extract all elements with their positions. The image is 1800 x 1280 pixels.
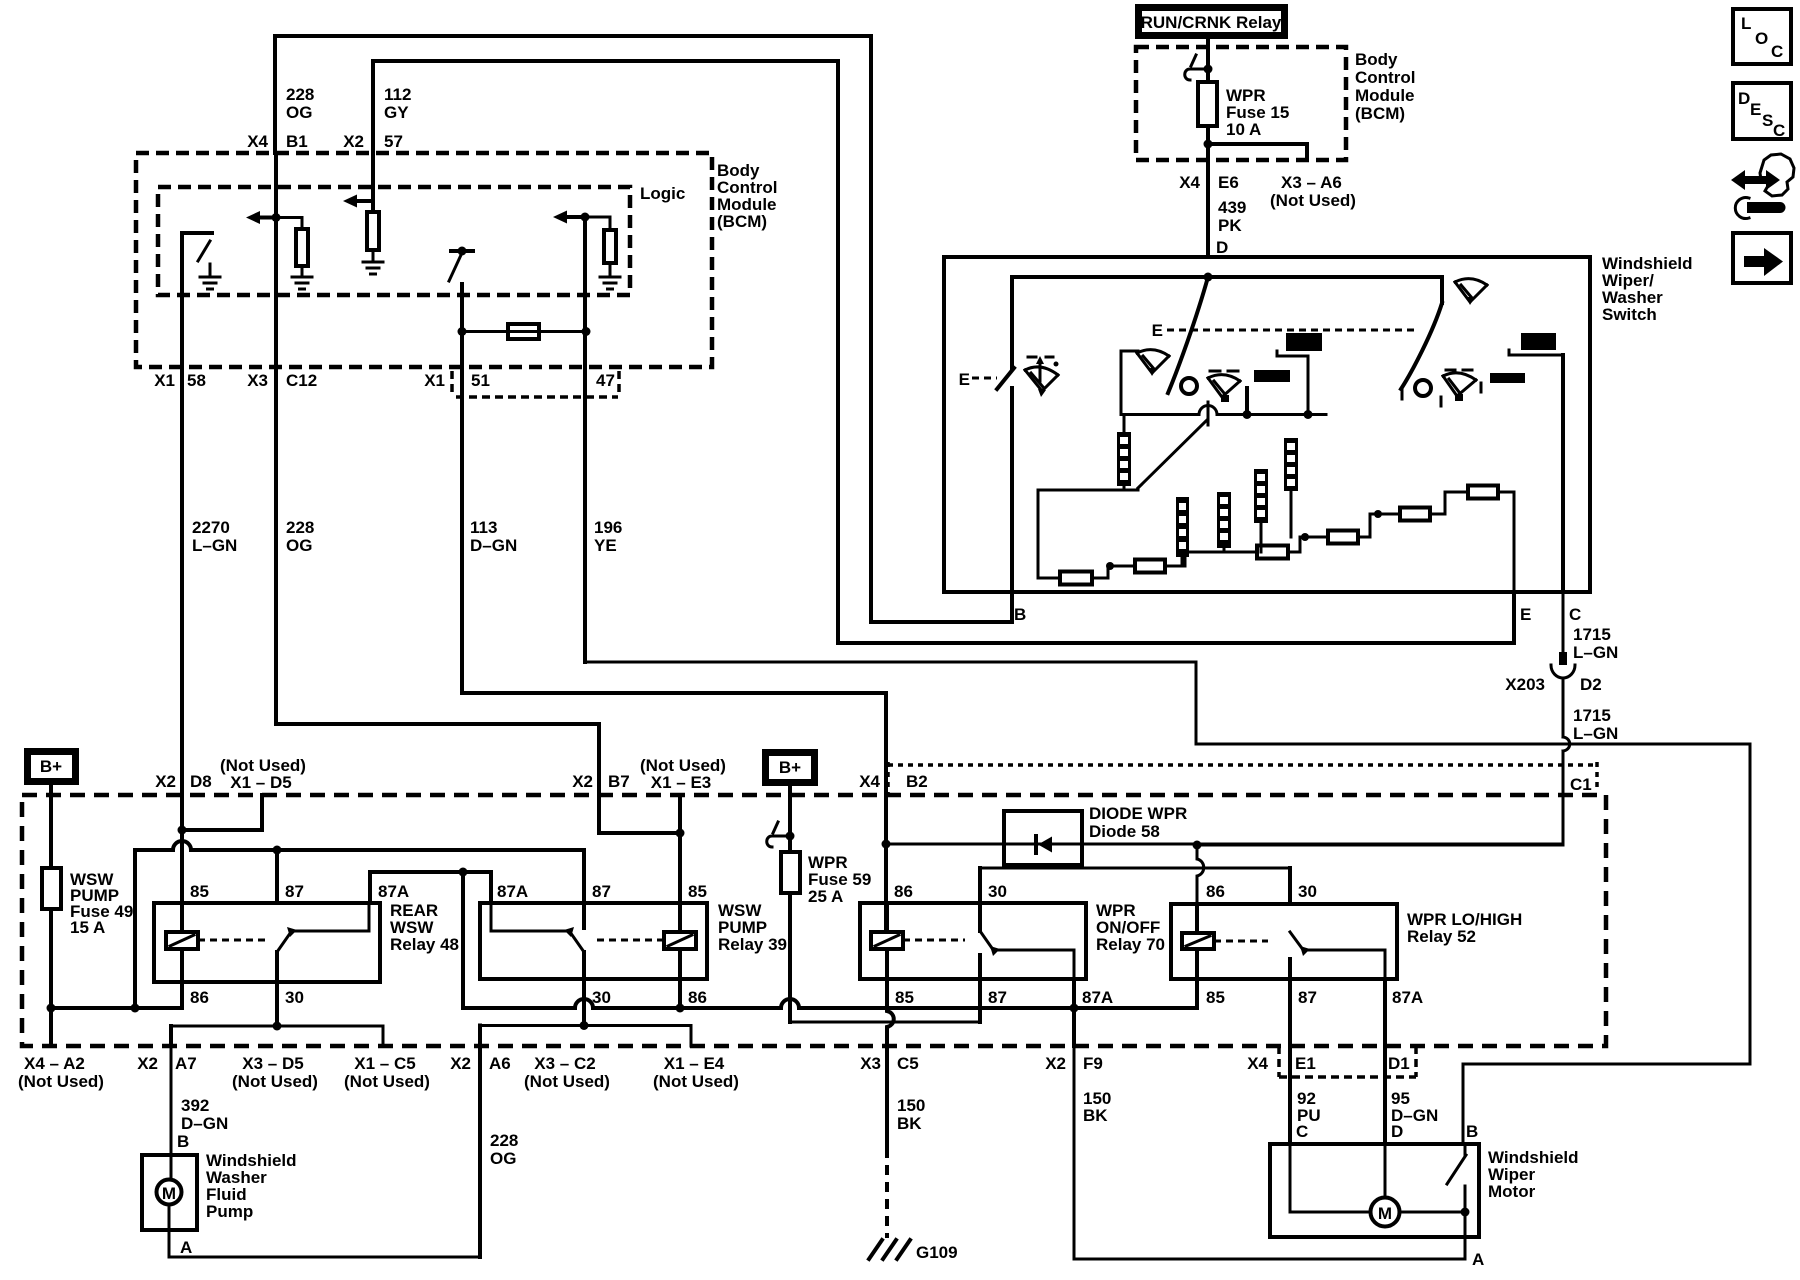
wire 87A/F9 down — [1072, 979, 1076, 1046]
svg-text:Relay 48: Relay 48 — [390, 935, 459, 954]
svg-text:B: B — [1466, 1122, 1478, 1141]
wire motor A return (F9 to motor A) — [1074, 1046, 1465, 1259]
right wiper switch blade — [1440, 277, 1444, 303]
wire 392 line (relay48 30 to pump) — [171, 1025, 383, 1028]
svg-text:X2: X2 — [572, 772, 593, 791]
washer spray icon — [1025, 357, 1058, 391]
wire fuse 59 to relay70 87 — [788, 893, 792, 1022]
diode WPR Diode 58 — [1004, 811, 1082, 865]
svg-text:X4: X4 — [1247, 1054, 1268, 1073]
svg-text:X1 – E4: X1 – E4 — [664, 1054, 725, 1073]
node 87A rail — [459, 868, 468, 877]
ladder junction nodes — [1106, 562, 1114, 570]
svg-text:150: 150 — [897, 1096, 925, 1115]
svg-text:L–GN: L–GN — [1573, 724, 1618, 743]
park switch stub B — [1464, 1144, 1467, 1155]
svg-text:2270: 2270 — [192, 518, 230, 537]
windshield wiper motor box — [1270, 1144, 1479, 1237]
svg-text:BK: BK — [897, 1114, 922, 1133]
relay48 pin 30 — [275, 952, 279, 1026]
svg-text:Relay 39: Relay 39 — [718, 935, 787, 954]
wire high bar to pin C — [1509, 350, 1563, 355]
ladder resistor R5 — [1400, 508, 1430, 521]
svg-text:C: C — [1296, 1122, 1308, 1141]
relay52 coil link (dashed) — [1214, 940, 1268, 943]
wire washer switch pole (B pin into box) — [1010, 388, 1014, 592]
wire 228 line (relay39 30 to A6) — [480, 1024, 691, 1027]
svg-text:X3 – C2: X3 – C2 — [534, 1054, 595, 1073]
svg-text:(Not Used): (Not Used) — [524, 1072, 610, 1091]
svg-text:85: 85 — [1206, 988, 1225, 1007]
ground rail right segment with hops at 584 and fuse59 — [463, 979, 1197, 1008]
svg-text:196: 196 — [594, 518, 622, 537]
svg-text:85: 85 — [190, 882, 209, 901]
resistor in logic (57) — [367, 212, 379, 250]
BCM box top right (dashed) — [1136, 47, 1346, 160]
svg-text:25 A: 25 A — [808, 887, 843, 906]
svg-text:86: 86 — [190, 988, 209, 1007]
ladder resistor R3 — [1257, 546, 1288, 559]
wire pump A to 228 OG — [169, 1206, 480, 1257]
svg-text:47: 47 — [596, 371, 615, 390]
svg-text:X3: X3 — [860, 1054, 881, 1073]
svg-text:E: E — [959, 370, 970, 389]
ladder resistor R4 — [1328, 531, 1358, 544]
wire 57 into logic — [371, 153, 375, 212]
relay70 pin 85 with jog — [887, 949, 894, 1148]
ladder resistor R6 — [1468, 486, 1498, 499]
svg-text:112: 112 — [384, 85, 411, 104]
wire high bar to ladder — [1277, 351, 1308, 415]
relay52 86 feed with hop — [1197, 845, 1204, 904]
wire to washer switch contact — [1010, 277, 1014, 368]
wiper motor M — [1371, 1198, 1400, 1227]
wire 228 OG B1 loop (BCM B1 to switch B) — [275, 36, 1012, 622]
svg-text:87: 87 — [592, 882, 611, 901]
relay48 blade — [277, 932, 291, 952]
wire 112 GY 57 loop (BCM 57 to switch E) — [373, 61, 1514, 643]
node on 47 wire — [581, 213, 590, 222]
resistor in logic (47) — [585, 217, 610, 230]
wire fuse 49 down — [49, 909, 53, 1046]
svg-text:228: 228 — [286, 85, 314, 104]
svg-text:Body: Body — [1355, 50, 1398, 69]
svg-text:30: 30 — [285, 988, 304, 1007]
switch to ground in BCM logic — [182, 231, 212, 235]
arrow out (47) — [565, 215, 585, 219]
ladder resistor R2 — [1135, 560, 1165, 573]
relay WPR LO/HIGH Relay 52 — [1171, 904, 1397, 979]
svg-text:L–GN: L–GN — [1573, 643, 1618, 662]
diagonal wiper feed — [1138, 420, 1207, 488]
svg-text:51: 51 — [471, 371, 490, 390]
wiper icon dashed (delay) — [1208, 371, 1240, 397]
wire 196 YE pin 47 (BCM to wiper motor A) — [583, 217, 587, 662]
fuse WPR Fuse 59 25 A — [781, 852, 800, 893]
connector X203 — [1559, 652, 1567, 665]
svg-text:1715: 1715 — [1573, 625, 1611, 644]
svg-text:A6: A6 — [489, 1054, 511, 1073]
svg-text:F9: F9 — [1083, 1054, 1103, 1073]
wire wiper icon to ladder — [1121, 351, 1138, 415]
resistor between 51 and 47 — [462, 330, 586, 333]
svg-text:D8: D8 — [190, 772, 212, 791]
svg-text:Module: Module — [1355, 86, 1415, 105]
motor A out — [1464, 1212, 1467, 1259]
S4 tap — [1181, 557, 1184, 566]
wire 150 BK dashed to G109 — [885, 1148, 889, 1238]
svg-text:Pump: Pump — [206, 1202, 253, 1221]
svg-text:OG: OG — [490, 1149, 516, 1168]
svg-text:15 A: 15 A — [70, 918, 105, 937]
relay70 NC 87A path — [996, 950, 1074, 979]
node D inside switch — [1204, 273, 1213, 282]
svg-text:D: D — [1391, 1122, 1403, 1141]
svg-text:87A: 87A — [497, 882, 528, 901]
wire 87A down to rail — [461, 872, 465, 1008]
svg-text:S: S — [1762, 111, 1773, 130]
striped resistor S3 — [1254, 469, 1268, 523]
svg-text:C5: C5 — [897, 1054, 919, 1073]
relay52 blade — [1290, 932, 1304, 951]
svg-text:C: C — [1773, 121, 1785, 140]
icon box LOC — [1733, 9, 1791, 64]
svg-text:B7: B7 — [608, 772, 630, 791]
fine dotted boundary to C1 — [888, 762, 1597, 795]
motor M to park switch — [1400, 1211, 1465, 1214]
connector X4 E1 D1 (dashed) — [1279, 1046, 1416, 1077]
relay WPR ON/OFF Relay 70 — [860, 903, 1086, 979]
wire 113 D-GN run to B2 — [462, 693, 886, 932]
svg-text:C: C — [1771, 42, 1783, 61]
svg-text:X2: X2 — [1045, 1054, 1066, 1073]
svg-text:X4: X4 — [1179, 173, 1200, 192]
svg-text:Relay 52: Relay 52 — [1407, 927, 1476, 946]
motor C to M — [1290, 1144, 1370, 1212]
fuse pull hook (fuse 59) — [767, 822, 790, 847]
svg-text:D–GN: D–GN — [181, 1114, 228, 1133]
relay52 NC 87A path — [1306, 950, 1385, 979]
contact bar low (right) — [1490, 373, 1525, 383]
svg-text:GY: GY — [384, 103, 409, 122]
svg-text:85: 85 — [688, 882, 707, 901]
svg-text:86: 86 — [1206, 882, 1225, 901]
stub X3-A6 (not used) — [1208, 144, 1307, 160]
svg-text:X1 – C5: X1 – C5 — [354, 1054, 415, 1073]
svg-text:86: 86 — [688, 988, 707, 1007]
svg-text:RUN/CRNK Relay: RUN/CRNK Relay — [1141, 13, 1282, 32]
ladder top line with hop — [1121, 406, 1326, 415]
main wiper switch blade — [1168, 277, 1208, 393]
svg-text:D: D — [1738, 89, 1750, 108]
svg-text:B2: B2 — [906, 772, 928, 791]
wire B+ to fuse 59 — [788, 785, 792, 852]
arrow out (C12) — [258, 216, 276, 220]
relay70 pin 30 riser — [978, 868, 982, 931]
wire feed rail inside switch — [1012, 275, 1442, 279]
svg-text:87A: 87A — [378, 882, 409, 901]
svg-text:X2: X2 — [450, 1054, 471, 1073]
wire 1715 L-GN switch C to X203 — [1562, 592, 1565, 654]
wire 228 OG run to B7 — [276, 724, 680, 833]
svg-text:57: 57 — [384, 132, 403, 151]
svg-text:87A: 87A — [1082, 988, 1113, 1007]
underhood fuse block box (dashed) — [22, 795, 1606, 1046]
svg-text:86: 86 — [894, 882, 913, 901]
svg-text:(Not Used): (Not Used) — [653, 1072, 739, 1091]
wire pin C inside box — [1561, 355, 1565, 592]
svg-text:M: M — [1378, 1204, 1392, 1223]
node diode to relay52 — [1193, 841, 1202, 850]
svg-text:30: 30 — [592, 988, 611, 1007]
relay39 coil — [664, 932, 696, 949]
logic box (dashed) — [158, 187, 630, 295]
svg-text:X2: X2 — [137, 1054, 158, 1073]
stem through ladder hop — [1207, 402, 1210, 425]
park switch blade — [1447, 1155, 1466, 1184]
svg-text:30: 30 — [1298, 882, 1317, 901]
relay48 NC 87A path — [293, 903, 369, 931]
relay39 coil link (dashed) — [594, 939, 664, 942]
left rail under S1 — [1038, 489, 1138, 492]
resistor ladder bus — [1038, 490, 1514, 592]
svg-text:Relay 70: Relay 70 — [1096, 935, 1165, 954]
svg-text:X2: X2 — [343, 132, 364, 151]
contact stub — [1245, 388, 1249, 414]
switch contact (51) — [451, 249, 473, 253]
wire 439 PK feed from RUN/CRNK — [1206, 39, 1210, 82]
svg-text:Control: Control — [1355, 68, 1415, 87]
wiper icon (right top) — [1455, 279, 1487, 302]
node diode feed B2 — [882, 840, 891, 849]
svg-text:(Not Used): (Not Used) — [232, 1072, 318, 1091]
ground G109 — [869, 1240, 910, 1259]
wire 2270 L-GN pin 58 (BCM to relay 48 coil) — [180, 233, 184, 903]
park switch lower contact — [1464, 1186, 1467, 1212]
wire 392 D-GN to washer pump — [170, 1046, 173, 1179]
washer pump motor M — [157, 1180, 182, 1205]
relay52 pin 87 stub — [1288, 959, 1292, 979]
svg-text:YE: YE — [594, 536, 617, 555]
motor D to M — [1384, 1144, 1387, 1197]
svg-text:A: A — [180, 1238, 192, 1257]
ground (C12 resistor) — [292, 277, 312, 289]
windshield washer fluid pump box — [142, 1155, 197, 1230]
svg-text:X1 – E3: X1 – E3 — [651, 773, 712, 792]
svg-text:C: C — [1569, 605, 1581, 624]
fuse WPR Fuse 15 10A — [1198, 82, 1217, 126]
striped resistor S5 — [1217, 492, 1231, 548]
contact bar high — [1286, 333, 1322, 351]
relay70 coil link (dashed) — [903, 939, 965, 942]
node relay48 87 — [273, 846, 282, 855]
S2 tap — [1290, 491, 1293, 537]
svg-text:Motor: Motor — [1488, 1182, 1536, 1201]
relay70 coil — [871, 932, 903, 949]
svg-text:L: L — [1741, 14, 1751, 33]
svg-text:Logic: Logic — [640, 184, 685, 203]
contact circle (right) — [1415, 380, 1431, 396]
svg-text:D2: D2 — [1580, 675, 1602, 694]
svg-text:(Not Used): (Not Used) — [18, 1072, 104, 1091]
relay48 coil — [166, 932, 198, 949]
svg-text:G109: G109 — [916, 1243, 958, 1262]
wire B+ to fuse 49 — [49, 785, 53, 868]
svg-text:87: 87 — [988, 988, 1007, 1007]
svg-text:X3 – D5: X3 – D5 — [242, 1054, 303, 1073]
wire below fuse 15 — [1206, 126, 1210, 257]
icon box DESC — [1733, 83, 1791, 139]
svg-text:M: M — [162, 1184, 176, 1203]
wire 113 D-GN pin 51 (BCM to UBEC B2) — [460, 284, 464, 693]
wiper icon dashed (right) — [1441, 370, 1481, 406]
wire 196 YE run to motor B — [585, 662, 1750, 1144]
relay70 pin 87 stub — [978, 955, 982, 1022]
svg-text:113: 113 — [470, 518, 497, 537]
svg-text:D–GN: D–GN — [470, 536, 517, 555]
contact circle (low) — [1181, 378, 1197, 394]
svg-text:X3: X3 — [247, 371, 268, 390]
svg-text:E: E — [1152, 321, 1163, 340]
ladder resistor R1 — [1060, 572, 1092, 585]
wire relay70 30 to relay52 30 — [980, 867, 1290, 870]
ground (57 resistor) — [363, 262, 383, 274]
svg-text:Switch: Switch — [1602, 305, 1657, 324]
S5 tap — [1223, 548, 1226, 552]
relay REAR WSW Relay 48 — [154, 903, 380, 982]
contact stub (right) — [1401, 389, 1404, 399]
svg-text:85: 85 — [895, 988, 914, 1007]
svg-text:X4: X4 — [247, 132, 268, 151]
washer switch blade — [997, 368, 1014, 389]
svg-text:X1 – D5: X1 – D5 — [230, 773, 291, 792]
RUN/CRNK Relay label box — [1139, 8, 1285, 36]
node on C12 wire — [272, 213, 281, 222]
wire relay39 coil feed — [678, 833, 682, 932]
svg-text:392: 392 — [181, 1096, 209, 1115]
svg-text:(BCM): (BCM) — [717, 212, 767, 231]
svg-text:B: B — [1014, 605, 1026, 624]
svg-text:E: E — [1750, 100, 1761, 119]
resistor in logic (C12) — [276, 218, 302, 230]
svg-text:E1: E1 — [1295, 1054, 1316, 1073]
svg-text:O: O — [1755, 29, 1768, 48]
svg-text:Diode 58: Diode 58 — [1089, 822, 1160, 841]
svg-text:L–GN: L–GN — [192, 536, 237, 555]
BCM box (dashed) — [136, 153, 712, 367]
svg-text:X2: X2 — [155, 772, 176, 791]
svg-text:439: 439 — [1218, 198, 1246, 217]
B+ feed (fuse 59) — [766, 753, 815, 783]
striped resistor S1 — [1117, 432, 1131, 486]
svg-text:B+: B+ — [40, 757, 62, 776]
S3 tap — [1260, 523, 1263, 552]
stub X1-E3 (not used) — [678, 795, 682, 833]
svg-text:X1: X1 — [424, 371, 445, 390]
B+ feed (fuse 49) — [28, 752, 76, 782]
contact bar high (right) — [1521, 333, 1556, 350]
svg-text:228: 228 — [490, 1131, 518, 1150]
svg-text:BK: BK — [1083, 1106, 1108, 1125]
svg-text:(Not Used): (Not Used) — [344, 1072, 430, 1091]
svg-text:B+: B+ — [779, 758, 801, 777]
relay52 coil — [1182, 933, 1214, 949]
diode line — [886, 843, 1563, 846]
svg-text:X3 – A6: X3 – A6 — [1281, 173, 1342, 192]
svg-text:A: A — [1472, 1250, 1484, 1269]
svg-text:30: 30 — [988, 882, 1007, 901]
ground rail left segment — [51, 982, 182, 1008]
svg-text:10 A: 10 A — [1226, 120, 1261, 139]
striped resistor S4 — [1176, 497, 1189, 557]
svg-text:87A: 87A — [1392, 988, 1423, 1007]
relay48 coil link (dashed) — [198, 939, 268, 942]
svg-text:B: B — [177, 1132, 189, 1151]
icon troubleshooting (arrow + outline + wrench) — [1731, 170, 1780, 190]
svg-text:X4 – A2: X4 – A2 — [24, 1054, 85, 1073]
svg-text:228: 228 — [286, 518, 314, 537]
svg-text:58: 58 — [187, 371, 206, 390]
arrow out (57) — [355, 199, 373, 203]
ground (47 resistor) — [600, 277, 620, 289]
contact bar low — [1254, 370, 1290, 382]
node B7/E3 junction — [676, 829, 685, 838]
relay48 87A riser — [370, 872, 463, 903]
ground (logic sw) — [209, 264, 212, 277]
svg-text:X1: X1 — [154, 371, 175, 390]
striped resistor S2 — [1284, 438, 1298, 491]
wire 228 OG pin C12 (BCM to relay 39 coil via B7) — [274, 153, 278, 724]
svg-text:87: 87 — [285, 882, 304, 901]
relay70 blade — [980, 931, 994, 951]
relay39 NC 87A path — [491, 903, 568, 931]
svg-text:C12: C12 — [286, 371, 317, 390]
wire relay48 87 feed with hop over 2270 — [135, 841, 584, 1008]
wire 92 PU (relay52 87 to motor C) — [1288, 979, 1292, 1144]
icon box arrow — [1733, 233, 1791, 283]
svg-text:E6: E6 — [1218, 173, 1239, 192]
svg-text:OG: OG — [286, 103, 312, 122]
relay39 blade — [570, 932, 584, 952]
svg-text:OG: OG — [286, 536, 312, 555]
relay39 pin 30 — [582, 903, 586, 928]
windshield wiper/washer switch box — [944, 257, 1590, 592]
svg-text:A7: A7 — [175, 1054, 197, 1073]
wire 1715 L-GN below X203 with hop to C1 — [1197, 679, 1570, 845]
svg-text:X4: X4 — [859, 772, 880, 791]
fuse WSW PUMP Fuse 49 15 A — [42, 868, 61, 909]
wire 87A to relay39 — [463, 872, 491, 903]
svg-text:PK: PK — [1218, 216, 1242, 235]
svg-text:C1: C1 — [1570, 775, 1592, 794]
svg-text:(BCM): (BCM) — [1355, 104, 1405, 123]
svg-text:B1: B1 — [286, 132, 308, 151]
stub X1-D5 (not used) — [182, 795, 262, 830]
wire 95 D-GN (relay52 87A to motor D) — [1383, 979, 1387, 1144]
svg-text:87: 87 — [1298, 988, 1317, 1007]
svg-text:DIODE WPR: DIODE WPR — [1089, 804, 1187, 823]
svg-text:D: D — [1216, 238, 1228, 257]
relay WSW PUMP Relay 39 — [480, 903, 707, 979]
S1 tap — [1123, 415, 1126, 491]
svg-text:E: E — [1520, 605, 1531, 624]
svg-text:1715: 1715 — [1573, 706, 1611, 725]
fuse pull hook (fuse 15) — [1185, 55, 1208, 80]
svg-text:(Not Used): (Not Used) — [1270, 191, 1356, 210]
wiper icon (mist) — [1137, 350, 1169, 373]
svg-text:X203: X203 — [1505, 675, 1545, 694]
svg-text:D1: D1 — [1388, 1054, 1410, 1073]
